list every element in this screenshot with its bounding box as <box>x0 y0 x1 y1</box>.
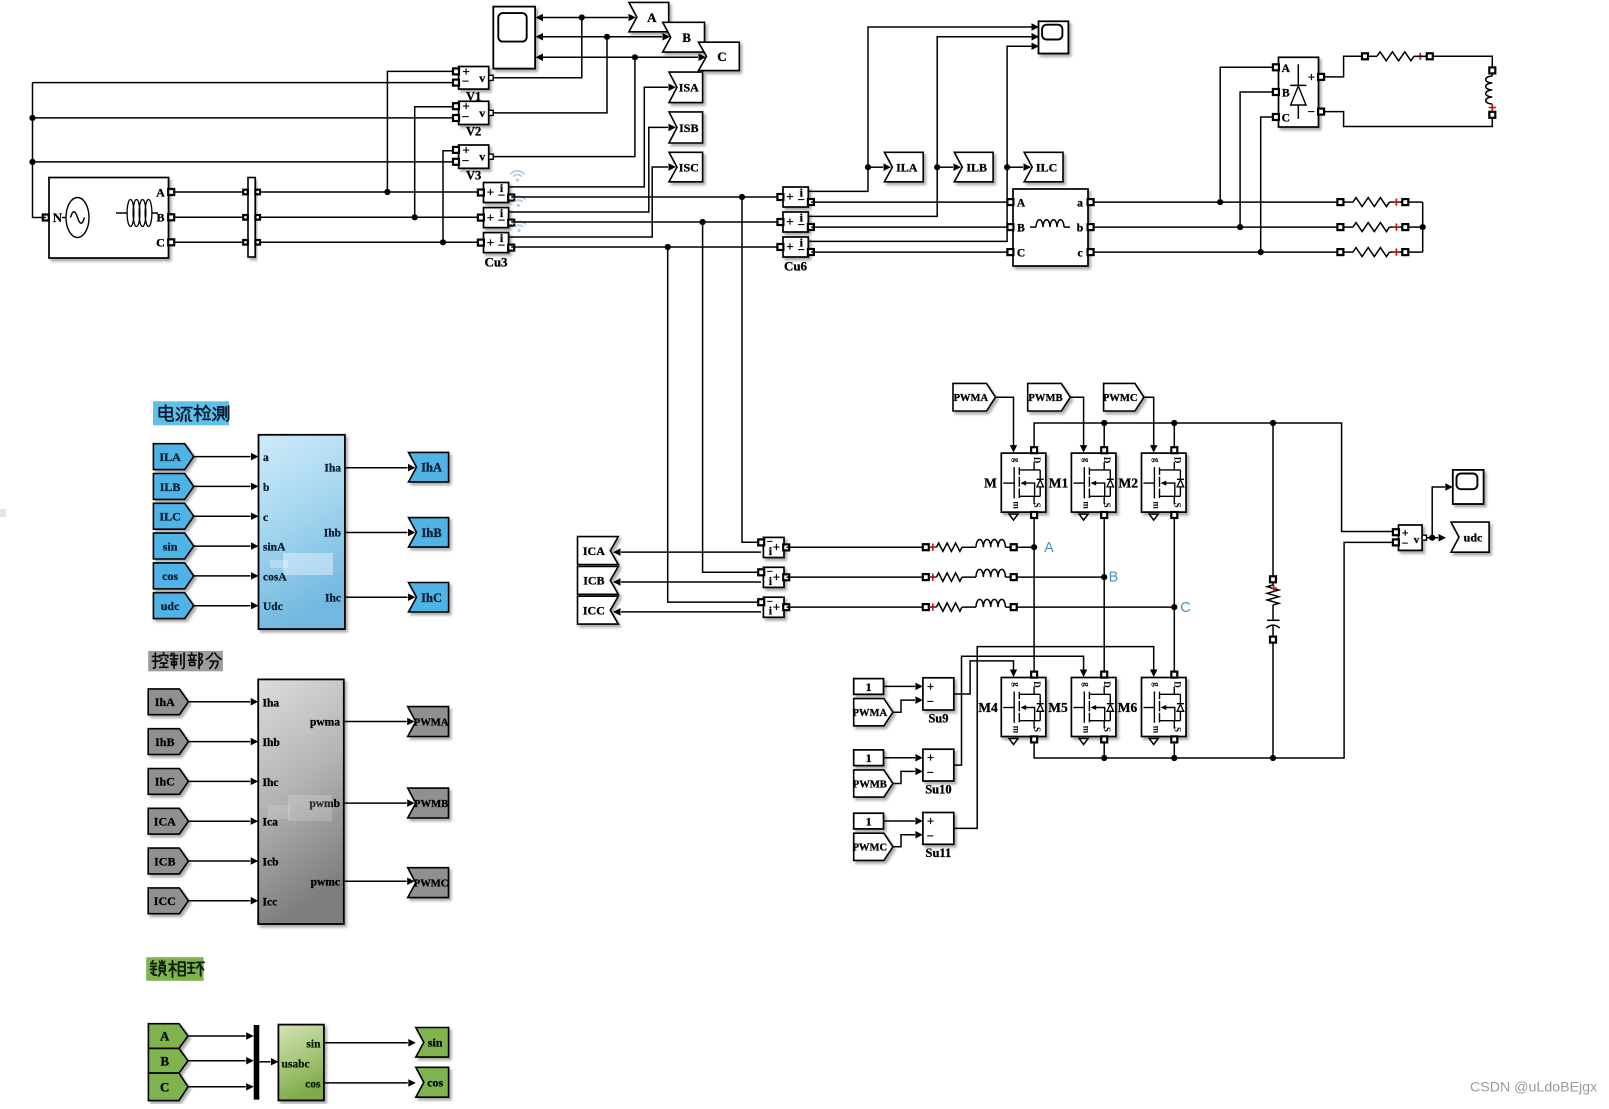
svg-text:+: + <box>773 570 780 585</box>
svg-text:A: A <box>1017 198 1026 210</box>
svg-text:D: D <box>1102 681 1112 688</box>
svg-text:IhC: IhC <box>155 775 175 789</box>
svg-text:D: D <box>1172 681 1182 688</box>
svg-text:C: C <box>1180 600 1190 616</box>
svg-text:−: − <box>462 109 469 124</box>
svg-text:A: A <box>156 186 165 200</box>
svg-text:D: D <box>1032 457 1042 464</box>
svg-text:ISB: ISB <box>679 121 698 135</box>
svg-text:CSDN @uLdoBEjgx: CSDN @uLdoBEjgx <box>1470 1080 1597 1096</box>
svg-text:B: B <box>156 211 164 225</box>
svg-text:sin: sin <box>306 1038 321 1050</box>
svg-text:−: − <box>1308 104 1315 119</box>
svg-text:−: − <box>1402 538 1409 550</box>
svg-text:g: g <box>1082 682 1092 687</box>
svg-text:PWMA: PWMA <box>414 717 449 728</box>
svg-text:V3: V3 <box>466 168 481 182</box>
svg-text:A: A <box>1044 540 1054 556</box>
svg-text:m: m <box>1082 501 1092 509</box>
svg-text:a: a <box>263 452 269 464</box>
svg-text:−: − <box>498 212 505 227</box>
svg-text:C: C <box>156 236 165 250</box>
svg-text:Iha: Iha <box>263 697 280 709</box>
svg-text:M5: M5 <box>1048 700 1068 715</box>
svg-text:S: S <box>1102 503 1112 508</box>
svg-text:M4: M4 <box>978 700 998 715</box>
svg-text:+: + <box>786 214 793 229</box>
svg-text:Su11: Su11 <box>926 846 952 860</box>
svg-text:g: g <box>1152 458 1162 463</box>
svg-text:ILB: ILB <box>966 160 987 174</box>
svg-text:Icc: Icc <box>263 896 278 908</box>
svg-text:ICB: ICB <box>154 854 175 868</box>
svg-text:udc: udc <box>1464 531 1483 545</box>
svg-text:v: v <box>479 150 485 164</box>
svg-text:IhC: IhC <box>421 591 442 605</box>
svg-text:PWMC: PWMC <box>1103 393 1138 404</box>
svg-text:+: + <box>786 239 793 254</box>
svg-text:b: b <box>1077 223 1083 235</box>
svg-text:ILA: ILA <box>159 450 181 464</box>
svg-text:+: + <box>487 185 494 200</box>
svg-text:−: − <box>462 153 469 168</box>
svg-text:Ihb: Ihb <box>263 737 280 749</box>
svg-text:udc: udc <box>161 599 180 613</box>
svg-text:PWMB: PWMB <box>853 779 887 790</box>
svg-text:ISC: ISC <box>679 160 699 174</box>
svg-text:Ihc: Ihc <box>325 592 341 604</box>
svg-text:−: − <box>798 242 805 257</box>
svg-text:M: M <box>984 476 997 491</box>
svg-text:a: a <box>1077 198 1083 210</box>
svg-text:usabc: usabc <box>282 1058 310 1070</box>
svg-text:S: S <box>1032 727 1042 732</box>
svg-text:+: + <box>773 600 780 615</box>
svg-text:Udc: Udc <box>263 601 283 613</box>
svg-text:+: + <box>773 540 780 555</box>
svg-text:m: m <box>1012 501 1022 509</box>
svg-text:cos: cos <box>305 1079 321 1091</box>
svg-text:D: D <box>1172 457 1182 464</box>
svg-text:c: c <box>263 512 268 524</box>
svg-text:ICB: ICB <box>583 574 604 588</box>
svg-text:sin: sin <box>163 539 178 553</box>
svg-text:PWMA: PWMA <box>852 708 887 719</box>
svg-text:ICC: ICC <box>583 604 605 618</box>
svg-text:cos: cos <box>162 569 178 583</box>
svg-text:D: D <box>1032 681 1042 688</box>
svg-text:PWMB: PWMB <box>1028 393 1062 404</box>
svg-text:ICA: ICA <box>154 815 176 829</box>
svg-text:IhB: IhB <box>155 735 174 749</box>
svg-text:+: + <box>1308 69 1315 84</box>
svg-text:m: m <box>1012 726 1022 734</box>
svg-text:m: m <box>1082 726 1092 734</box>
svg-text:D: D <box>1102 457 1112 464</box>
svg-text:ISA: ISA <box>679 81 699 95</box>
svg-text:S: S <box>1172 503 1182 508</box>
svg-text:v: v <box>479 106 485 120</box>
svg-text:g: g <box>1012 458 1022 463</box>
svg-text:m: m <box>1152 726 1162 734</box>
svg-text:A: A <box>160 1029 170 1044</box>
svg-text:IhA: IhA <box>155 695 175 709</box>
svg-text:C: C <box>160 1080 169 1095</box>
svg-text:N: N <box>53 210 63 225</box>
svg-text:B: B <box>682 30 691 45</box>
svg-text:v: v <box>1414 534 1420 546</box>
svg-text:Icb: Icb <box>263 857 279 869</box>
svg-text:PWMC: PWMC <box>414 879 449 890</box>
svg-text:C: C <box>1017 248 1025 260</box>
svg-text:B: B <box>1017 223 1025 235</box>
svg-text:Iha: Iha <box>324 463 341 475</box>
svg-text:Su10: Su10 <box>925 783 951 797</box>
svg-text:1: 1 <box>866 751 872 765</box>
svg-text:C: C <box>717 49 726 64</box>
svg-text:ICA: ICA <box>583 544 605 558</box>
svg-text:g: g <box>1082 458 1092 463</box>
svg-text:A: A <box>1282 63 1291 75</box>
svg-text:B: B <box>1109 570 1119 586</box>
svg-text:PWMB: PWMB <box>414 799 448 810</box>
svg-text:C: C <box>1282 113 1290 125</box>
svg-text:pwmc: pwmc <box>311 876 340 888</box>
svg-text:+: + <box>927 815 934 829</box>
svg-text:ICC: ICC <box>154 894 176 908</box>
svg-text:+: + <box>927 680 934 694</box>
svg-text:v: v <box>479 71 485 85</box>
svg-text:−: − <box>927 829 934 843</box>
svg-text:−: − <box>927 695 934 709</box>
svg-text:+: + <box>927 751 934 765</box>
svg-text:−: − <box>798 217 805 232</box>
svg-text:Ihb: Ihb <box>324 528 341 540</box>
svg-text:cos: cos <box>427 1076 443 1090</box>
svg-text:−: − <box>498 187 505 202</box>
svg-text:Ihc: Ihc <box>263 777 279 789</box>
svg-text:sin: sin <box>428 1036 443 1050</box>
svg-text:A: A <box>647 10 657 25</box>
svg-text:sinA: sinA <box>263 542 286 554</box>
svg-text:ILC: ILC <box>159 510 180 524</box>
svg-text:−: − <box>798 192 805 207</box>
svg-text:V2: V2 <box>466 125 481 139</box>
svg-text:c: c <box>1077 248 1082 260</box>
svg-text:+: + <box>487 210 494 225</box>
svg-text:IhB: IhB <box>422 526 442 540</box>
svg-text:ILC: ILC <box>1036 160 1057 174</box>
svg-text:B: B <box>1282 88 1290 100</box>
svg-text:1: 1 <box>866 680 872 694</box>
svg-text:g: g <box>1152 682 1162 687</box>
svg-text:pwma: pwma <box>310 717 340 729</box>
svg-text:−: − <box>927 766 934 780</box>
svg-text:b: b <box>263 482 269 494</box>
svg-text:PWMA: PWMA <box>953 393 988 404</box>
svg-text:M6: M6 <box>1118 700 1138 715</box>
svg-text:S: S <box>1102 727 1112 732</box>
svg-text:+: + <box>786 189 793 204</box>
svg-text:Cu6: Cu6 <box>784 259 808 274</box>
svg-text:1: 1 <box>866 814 872 828</box>
svg-text:m: m <box>1152 501 1162 509</box>
svg-text:ILB: ILB <box>160 480 181 494</box>
svg-text:S: S <box>1172 727 1182 732</box>
svg-text:−: − <box>498 237 505 252</box>
svg-text:Cu3: Cu3 <box>484 255 508 270</box>
svg-text:+: + <box>487 235 494 250</box>
svg-text:−: − <box>462 74 469 89</box>
svg-text:PWMC: PWMC <box>852 843 887 854</box>
svg-text:ILA: ILA <box>896 160 918 174</box>
svg-text:S: S <box>1032 503 1042 508</box>
svg-text:Su9: Su9 <box>928 712 948 726</box>
svg-text:IhA: IhA <box>421 461 442 475</box>
svg-text:B: B <box>160 1053 169 1068</box>
svg-text:M1: M1 <box>1049 476 1069 491</box>
svg-text:M2: M2 <box>1119 476 1139 491</box>
svg-text:g: g <box>1012 682 1022 687</box>
